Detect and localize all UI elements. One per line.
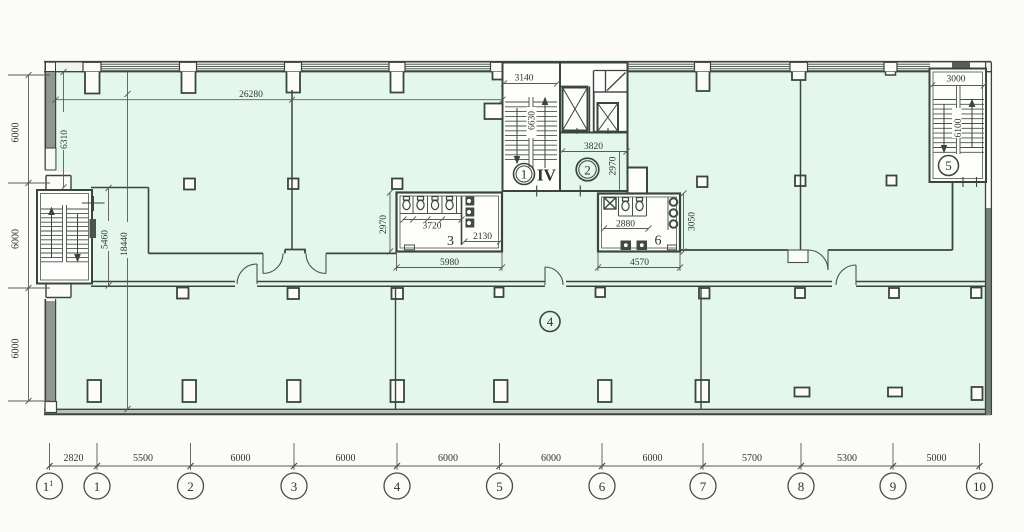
bottom dimension line bbox=[47, 443, 983, 470]
right exterior wall bbox=[986, 62, 992, 415]
stair box bbox=[37, 190, 92, 284]
svg-text:2: 2 bbox=[584, 162, 591, 177]
room tag 5 bbox=[939, 156, 959, 176]
svg-text:3050: 3050 bbox=[688, 212, 698, 231]
svg-text:2: 2 bbox=[187, 479, 194, 494]
dim 2970 left of room3 bbox=[389, 193, 391, 252]
stair door ticks bbox=[963, 177, 977, 187]
svg-text:7: 7 bbox=[700, 479, 707, 494]
vent rooms above shaft E2 bbox=[594, 71, 628, 93]
door D2 corridor left bbox=[306, 253, 326, 273]
bubble 1sup1 bbox=[37, 473, 63, 499]
svg-text:8: 8 bbox=[798, 479, 805, 494]
svg-text:3720: 3720 bbox=[423, 222, 442, 232]
shaft divider wall bbox=[590, 71, 594, 132]
dim 3820 bbox=[559, 149, 630, 155]
vestibule bottom bbox=[45, 283, 71, 298]
right stairwell ST3 bbox=[929, 62, 987, 187]
treads right flight bbox=[961, 100, 985, 153]
interior green floor bbox=[55, 71, 986, 409]
door D3 lower wall left bbox=[237, 264, 257, 284]
shaft bump above toilet 6 bbox=[628, 168, 648, 195]
column grid1 top bbox=[83, 62, 101, 71]
svg-text:10: 10 bbox=[973, 479, 986, 494]
up arrow right flight bbox=[969, 100, 974, 148]
toilet room 6 bbox=[595, 191, 698, 272]
svg-text:3000: 3000 bbox=[947, 75, 966, 85]
svg-text:6: 6 bbox=[655, 234, 662, 249]
core door ticks bbox=[537, 186, 581, 197]
partition grid7 bottom room bbox=[700, 286, 702, 409]
treads left flight bbox=[934, 100, 957, 153]
elevator shaft E2 bbox=[594, 92, 628, 132]
columns below corridor wall row bbox=[177, 288, 982, 300]
svg-text:4: 4 bbox=[394, 479, 401, 494]
svg-text:2130: 2130 bbox=[473, 232, 492, 242]
column grid7 top bbox=[695, 62, 711, 71]
room tag 4 bbox=[540, 312, 560, 332]
bubble 2 bbox=[178, 473, 204, 499]
wc fixtures row bbox=[403, 197, 453, 210]
svg-text:6000: 6000 bbox=[643, 453, 663, 464]
svg-text:5700: 5700 bbox=[742, 453, 762, 464]
stall partitions bbox=[619, 197, 647, 216]
free-standing columns middle row bbox=[184, 176, 897, 190]
dark hatch piece in top wall bbox=[952, 62, 970, 68]
svg-text:4570: 4570 bbox=[630, 258, 649, 268]
stall partitions bbox=[400, 196, 462, 214]
toilet room 3 bbox=[379, 190, 505, 272]
lower main wall (double line) bbox=[91, 282, 986, 287]
dim 5980 bbox=[394, 252, 506, 272]
top exterior wall window band bbox=[44, 62, 991, 72]
svg-text:6000: 6000 bbox=[231, 453, 251, 464]
svg-text:1: 1 bbox=[94, 479, 101, 494]
svg-text:6000: 6000 bbox=[11, 339, 22, 359]
dim 6630 vertical bbox=[527, 107, 538, 138]
dim 2880 bbox=[601, 226, 652, 232]
partition grid8 vertical bbox=[800, 80, 802, 250]
svg-text:2970: 2970 bbox=[609, 156, 619, 175]
vestibule bump left of core bbox=[485, 104, 503, 120]
squat pans bbox=[621, 241, 648, 251]
svg-text:9: 9 bbox=[890, 479, 897, 494]
left dimension line 6000x3 bbox=[8, 72, 50, 404]
svg-text:6000: 6000 bbox=[11, 123, 22, 143]
shaft bottom wall bbox=[560, 132, 628, 134]
bubble 9 bbox=[880, 473, 906, 499]
svg-text:4: 4 bbox=[547, 314, 554, 329]
mop sink with X bbox=[604, 198, 616, 210]
stair box wall bbox=[559, 63, 561, 192]
svg-text:2820: 2820 bbox=[64, 453, 84, 464]
door D5 lower wall right bbox=[836, 265, 856, 285]
door D6 corridor right bbox=[788, 250, 828, 270]
svg-text:5980: 5980 bbox=[440, 258, 459, 268]
free-standing columns bottom row bbox=[88, 380, 983, 402]
dim 2970 room2 bbox=[619, 152, 621, 191]
svg-text:5500: 5500 bbox=[133, 453, 153, 464]
slash ticks bbox=[47, 463, 983, 469]
partition room1' horizontal bbox=[91, 187, 149, 189]
bubble 6 bbox=[589, 473, 615, 499]
central core: stair + elevators bbox=[485, 63, 630, 197]
svg-text:3820: 3820 bbox=[584, 142, 603, 152]
squat toilets column bbox=[466, 197, 475, 228]
column grid4 top bbox=[389, 62, 405, 71]
partition room1' vertical bbox=[148, 188, 150, 254]
dim 3140 bbox=[501, 81, 560, 87]
dim 6310 vertical bbox=[59, 69, 70, 191]
svg-text:5460: 5460 bbox=[101, 230, 111, 249]
up arrow right flight bbox=[542, 98, 547, 168]
svg-text:5: 5 bbox=[945, 158, 952, 173]
svg-text:6000: 6000 bbox=[336, 453, 356, 464]
inner dividing wall bbox=[461, 196, 463, 245]
span texts bbox=[64, 453, 947, 464]
dim 26280 interior bbox=[53, 90, 506, 103]
elevator door marks bbox=[577, 128, 608, 137]
vestibule top bbox=[45, 172, 71, 191]
svg-text:2880: 2880 bbox=[616, 220, 635, 230]
column grid3 top bbox=[285, 62, 302, 71]
wc fixtures bbox=[622, 198, 643, 211]
level cross mark bbox=[82, 196, 105, 211]
treads left flight bbox=[41, 205, 63, 262]
bubble 3 bbox=[281, 473, 307, 499]
stair divider bbox=[528, 97, 530, 168]
svg-text:6: 6 bbox=[599, 479, 606, 494]
stair ST2 treads right flight bbox=[533, 102, 557, 160]
bubble 10 bbox=[967, 473, 993, 499]
column grid9 top bbox=[884, 62, 897, 71]
top wall column boxes with stubs (grid 1-9) bbox=[83, 62, 897, 93]
svg-text:1: 1 bbox=[521, 167, 528, 182]
dim 3720 bbox=[401, 217, 465, 223]
floor drain bbox=[405, 245, 415, 250]
basin column wall bbox=[667, 197, 669, 230]
room 2 floor bbox=[561, 134, 627, 190]
bubble 1 bbox=[84, 473, 110, 499]
svg-text:IV: IV bbox=[537, 166, 557, 185]
svg-text:5: 5 bbox=[496, 479, 503, 494]
basins bbox=[670, 198, 678, 228]
svg-text:26280: 26280 bbox=[239, 90, 263, 100]
corridor wall left segment bbox=[149, 250, 397, 254]
left exterior wall bbox=[44, 62, 57, 412]
svg-text:6100: 6100 bbox=[954, 118, 964, 137]
svg-text:6000: 6000 bbox=[11, 229, 22, 249]
bottom exterior wall band bbox=[44, 402, 991, 416]
dim 4570 bbox=[595, 252, 683, 272]
svg-text:6310: 6310 bbox=[60, 130, 70, 149]
bubble 5 bbox=[487, 473, 513, 499]
treads right flight bbox=[67, 205, 89, 262]
svg-text:2970: 2970 bbox=[379, 215, 389, 234]
svg-text:6000: 6000 bbox=[438, 453, 458, 464]
partition grid4 bottom room bbox=[395, 286, 397, 409]
dim 18440 vertical bbox=[120, 72, 131, 412]
dim 5460 vertical bbox=[100, 185, 112, 289]
column grid5 top bbox=[491, 62, 508, 71]
column grid8 top bbox=[790, 62, 808, 71]
corner drain bbox=[668, 245, 677, 250]
stair ST2 treads left flight bbox=[505, 102, 529, 160]
door wall chunk right of stair bbox=[90, 219, 97, 238]
bubble 7 bbox=[690, 473, 716, 499]
svg-text:6630: 6630 bbox=[528, 111, 538, 130]
dim 3050 right of room6 bbox=[681, 191, 687, 255]
grid bubbles bbox=[37, 473, 993, 499]
elevator shaft E1 bbox=[560, 87, 589, 131]
bubble 4 bbox=[384, 473, 410, 499]
door D1 corridor left bbox=[263, 253, 283, 273]
partition grid3 vertical bbox=[291, 90, 293, 250]
room tag 2 bbox=[576, 158, 599, 181]
svg-text:6000: 6000 bbox=[541, 453, 561, 464]
left stairwell ST1 bbox=[37, 172, 105, 298]
bubble 8 bbox=[788, 473, 814, 499]
door D4 lower wall centre bbox=[545, 267, 563, 285]
down arrow left flight bbox=[941, 104, 946, 152]
up arrow left flight bbox=[49, 208, 54, 258]
svg-text:3: 3 bbox=[447, 234, 454, 249]
extension ticks bbox=[50, 443, 980, 470]
down arrow left flight bbox=[514, 108, 519, 163]
room tag 1 bbox=[514, 164, 535, 185]
corridor wall right segment bbox=[680, 182, 953, 250]
svg-text:3: 3 bbox=[291, 479, 298, 494]
svg-text:5000: 5000 bbox=[927, 453, 947, 464]
down arrow right flight bbox=[75, 214, 80, 261]
dim 6100 vertical bbox=[952, 108, 964, 138]
dim 3000 bbox=[929, 83, 987, 89]
dim 2130 bbox=[462, 239, 504, 245]
svg-text:3140: 3140 bbox=[515, 74, 534, 84]
divider bbox=[956, 86, 958, 154]
svg-text:18440: 18440 bbox=[120, 232, 130, 256]
svg-text:5300: 5300 bbox=[837, 453, 857, 464]
column grid2 top bbox=[180, 62, 197, 71]
